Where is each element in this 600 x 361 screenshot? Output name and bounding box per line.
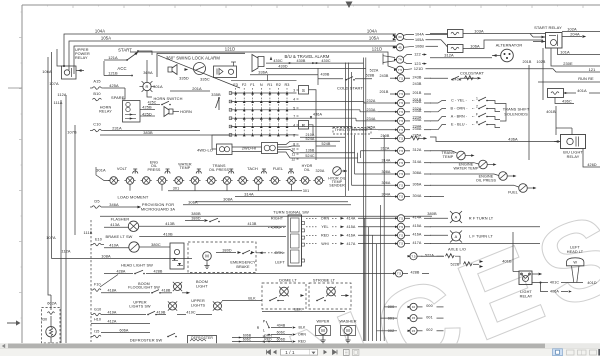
connector circle 45 at y47.3 [394, 46, 397, 48]
svg-text:404B: 404B [277, 323, 286, 327]
svg-text:522A: 522A [425, 253, 434, 257]
start relay feed arrows [541, 36, 545, 39]
alarm box 360 swing lock [157, 53, 245, 77]
wire 104A to fuse [430, 33, 448, 35]
lf turn light [430, 234, 448, 236]
wire 2wd to pins [278, 141, 301, 144]
svg-text:F1: F1 [250, 83, 255, 87]
feeder arrows into top circles [393, 34, 396, 36]
wire gauge feed vertical [96, 167, 110, 181]
wire 107A left vertical [51, 52, 53, 259]
svg-text:N: N [263, 340, 266, 344]
svg-text:383B: 383B [143, 130, 153, 135]
connector circle 7.5 at y69.8 [394, 69, 397, 71]
wire 108A [52, 258, 193, 260]
svg-text:FLASHER: FLASHER [111, 217, 130, 222]
svg-text:002: 002 [426, 328, 432, 332]
svg-text:RELAY: RELAY [99, 110, 112, 114]
svg-text:522A: 522A [370, 68, 379, 72]
svg-text:R3: R3 [284, 83, 289, 87]
svg-text:E10: E10 [95, 237, 102, 241]
svg-text:201B: 201B [522, 60, 531, 64]
svg-text:105A: 105A [369, 36, 379, 41]
svg-text:7.5: 7.5 [397, 272, 402, 276]
svg-text:522B: 522B [450, 263, 459, 267]
strobe lamp [327, 287, 336, 296]
wire 121D out of circle [403, 69, 412, 70]
connector circle 000 at y306.9 [408, 306, 411, 308]
defroster box [188, 336, 217, 345]
svg-text:WATER TEMP: WATER TEMP [453, 166, 479, 170]
wire 112A vertical [65, 95, 67, 343]
svg-text:7.5: 7.5 [399, 195, 404, 199]
svg-text:428B: 428B [153, 269, 162, 273]
wire 404B blk [271, 327, 292, 329]
svg-text:413B: 413B [247, 222, 256, 226]
svg-text:7.5: 7.5 [399, 172, 404, 176]
svg-text:606D: 606D [277, 337, 286, 341]
svg-text:000: 000 [426, 304, 432, 308]
svg-text:7.5: 7.5 [399, 183, 404, 187]
wire 412A [91, 323, 150, 325]
svg-text:430D: 430D [278, 64, 287, 68]
svg-text:413A: 413A [110, 222, 120, 227]
watermark outline letters [274, 185, 600, 361]
svg-text:001: 001 [426, 315, 432, 319]
diagonal wire from alarm [158, 55, 240, 88]
svg-text:111B: 111B [84, 230, 93, 235]
svg-text:415A: 415A [412, 224, 421, 228]
svg-text:430C: 430C [321, 59, 330, 63]
wire bundle middle verticals [364, 218, 366, 341]
wire 413A [104, 226, 128, 228]
svg-text:FUEL: FUEL [508, 190, 518, 194]
nav last page button [333, 350, 338, 355]
strobe switch [316, 300, 318, 302]
svg-text:R1: R1 [267, 83, 272, 87]
upper light lamp 1 [169, 302, 177, 310]
svg-text:START: START [118, 48, 132, 53]
wires out of circle 45 [403, 46, 414, 47]
svg-text:L F TURN LT: L F TURN LT [469, 234, 493, 239]
svg-text:308A: 308A [381, 170, 390, 174]
wire ignition to horn area [147, 91, 152, 97]
nav prev page button [273, 350, 277, 355]
svg-text:104A: 104A [95, 29, 105, 34]
wire 201A [170, 90, 210, 92]
emergency brake motor [203, 252, 212, 261]
wire 380C [139, 246, 170, 248]
wire 436A right [430, 137, 560, 142]
switch 335B [218, 98, 220, 110]
svg-text:SPARE: SPARE [111, 95, 125, 100]
R solenoid box [299, 121, 309, 130]
svg-text:201B: 201B [412, 91, 421, 95]
svg-text:106A: 106A [470, 43, 480, 48]
svg-text:RUN RE: RUN RE [578, 76, 594, 81]
svg-text:BLK: BLK [248, 296, 256, 300]
left ruler position marker arrow [7, 322, 17, 324]
svg-text:OIL: OIL [304, 168, 310, 172]
svg-text:401B: 401B [546, 109, 556, 114]
wire 106A to relay [57, 49, 62, 66]
svg-text:105A: 105A [101, 36, 111, 41]
svg-text:RELAY: RELAY [520, 294, 533, 298]
page icon 1 [344, 349, 350, 355]
svg-text:312A: 312A [444, 53, 454, 58]
svg-text:S: S [302, 88, 305, 93]
svg-text:TACH: TACH [247, 166, 258, 171]
svg-text:RELAY: RELAY [567, 155, 580, 159]
wire grid to 4wd [212, 135, 231, 149]
wire 413B [139, 225, 286, 227]
svg-text:5: 5 [293, 106, 295, 110]
svg-text:430B: 430B [296, 59, 305, 63]
wire 204A [562, 36, 582, 38]
wire 426D from relay [583, 149, 600, 168]
svg-text:416A: 416A [346, 234, 355, 238]
view mode button selected [553, 349, 563, 356]
page number box [281, 349, 318, 355]
svg-text:P: P [263, 320, 266, 324]
svg-text:235A: 235A [412, 134, 421, 138]
svg-text:335D: 335D [179, 76, 189, 81]
svg-text:419C: 419C [186, 310, 195, 314]
S solenoid box [299, 86, 309, 95]
svg-text:WHI: WHI [321, 242, 328, 246]
connector circle 001 at y318.1 [408, 317, 411, 319]
wire 415A continues [430, 226, 540, 228]
svg-text:OIL PRESS: OIL PRESS [209, 168, 230, 172]
svg-text:419A: 419A [107, 310, 116, 314]
svg-text:306A: 306A [412, 183, 421, 187]
svg-text:105A: 105A [415, 38, 424, 42]
svg-text:F3: F3 [233, 83, 238, 87]
svg-text:417A: 417A [412, 241, 421, 245]
svg-text:414A: 414A [412, 216, 421, 220]
wire bus 121D [130, 52, 396, 69]
wire bus 105A [69, 41, 396, 70]
svg-text:15: 15 [412, 316, 416, 320]
svg-text:428B: 428B [410, 271, 419, 275]
svg-text:2WD-HI: 2WD-HI [242, 146, 256, 151]
svg-text:H: H [263, 334, 266, 338]
connector circle 304A at y196.6 [395, 195, 398, 197]
svg-text:7A: 7A [398, 58, 402, 62]
svg-text:101A: 101A [560, 49, 570, 54]
wire 410B [139, 236, 286, 238]
wire 102A [562, 31, 600, 33]
svg-text:7.5: 7.5 [399, 161, 404, 165]
svg-text:WASHER: WASHER [339, 320, 356, 324]
svg-text:107A: 107A [46, 235, 56, 240]
svg-text:WIPER: WIPER [317, 320, 330, 324]
svg-text:380C: 380C [151, 242, 161, 247]
connector circle 60 at y37.0 [394, 36, 397, 38]
svg-text:301: 301 [173, 187, 179, 191]
svg-text:301A: 301A [96, 168, 106, 173]
svg-text:R: R [146, 84, 149, 89]
horn speaker [164, 107, 173, 117]
svg-text:AXLE L/O: AXLE L/O [448, 246, 466, 251]
wire blk strobe [262, 311, 345, 313]
scrollbar thumb [8, 344, 545, 349]
svg-text:A15: A15 [93, 78, 100, 83]
page icon 2 [353, 349, 359, 355]
svg-text:108A: 108A [101, 253, 111, 258]
svg-text:412A: 412A [107, 319, 116, 323]
svg-text:243B: 243B [379, 74, 388, 78]
svg-text:123: 123 [414, 62, 420, 66]
svg-text:235A: 235A [412, 127, 421, 131]
wire 314A lower [235, 196, 345, 198]
wire 304A right stub [430, 196, 444, 198]
svg-text:425A: 425A [109, 83, 119, 88]
svg-text:7.5: 7.5 [411, 254, 416, 258]
svg-text:7.5: 7.5 [399, 149, 404, 153]
svg-text:C10: C10 [93, 122, 101, 127]
svg-text:R F TURN LT: R F TURN LT [469, 216, 494, 221]
svg-text:425C: 425C [148, 100, 157, 104]
left ruler long tick [8, 87, 22, 89]
wire 524C [300, 157, 358, 159]
svg-text:B - ORN -: B - ORN - [450, 107, 468, 111]
svg-text:LIGHTS: LIGHTS [191, 303, 206, 307]
scrollbar left button [2, 344, 5, 348]
connector circle 7.5 at y138.4 [395, 137, 398, 139]
svg-text:304A: 304A [412, 194, 421, 198]
svg-text:R: R [302, 123, 306, 128]
svg-text:ORN: ORN [321, 217, 330, 221]
svg-text:107B: 107B [67, 130, 77, 135]
wire 602A feed [48, 251, 51, 295]
svg-text:234A: 234A [412, 118, 421, 122]
svg-text:606C: 606C [277, 330, 286, 334]
flasher module connector [170, 243, 184, 269]
svg-text:M: M [205, 254, 209, 259]
gauge drop wires [129, 184, 131, 190]
right edge mark [598, 349, 600, 356]
svg-text:201B: 201B [379, 90, 388, 94]
svg-text:243B: 243B [412, 75, 421, 79]
svg-text:436C: 436C [562, 98, 572, 103]
svg-text:H10: H10 [94, 317, 101, 321]
svg-text:ORN: ORN [298, 333, 306, 337]
svg-text:524B: 524B [321, 142, 330, 146]
svg-text:FLOODLIGHT SW: FLOODLIGHT SW [128, 286, 160, 290]
svg-text:380B: 380B [191, 211, 201, 216]
svg-text:LEFT: LEFT [275, 260, 285, 264]
dome switch [269, 300, 271, 302]
svg-text:LOAD MOMENT: LOAD MOMENT [118, 194, 149, 199]
svg-text:OIL PRESS: OIL PRESS [476, 178, 497, 182]
wire 383B [100, 134, 230, 136]
svg-text:1 / 1: 1 / 1 [285, 350, 295, 355]
wire 380D switch [185, 220, 204, 222]
svg-text:D5: D5 [94, 198, 99, 203]
svg-text:7.5: 7.5 [399, 128, 404, 132]
gauge alarm bells [133, 171, 138, 174]
svg-text:45: 45 [398, 45, 402, 49]
svg-text:121: 121 [589, 67, 596, 72]
svg-text:380B: 380B [427, 211, 437, 216]
svg-text:3: 3 [293, 88, 295, 92]
svg-text:121A: 121A [108, 55, 118, 60]
svg-text:1: 1 [476, 97, 478, 101]
svg-text:234A: 234A [366, 117, 375, 121]
bu light relay [561, 135, 586, 149]
svg-text:LIGHTS SW: LIGHTS SW [129, 305, 151, 309]
svg-text:A: A [455, 235, 458, 239]
svg-text:230E: 230E [563, 61, 573, 66]
wire 312A right [430, 57, 492, 59]
svg-text:7.5: 7.5 [399, 233, 404, 237]
wire 410A [104, 247, 129, 249]
wire 369A vertical [146, 60, 148, 82]
nav next page button [324, 350, 328, 355]
svg-text:LIGHT: LIGHT [196, 284, 208, 288]
wire 380D emergency [216, 252, 236, 254]
svg-text:4WD-LO: 4WD-LO [197, 148, 213, 153]
svg-text:HORN SWITCH: HORN SWITCH [154, 96, 183, 101]
turn rows yel [306, 226, 318, 228]
svg-text:306A: 306A [188, 200, 198, 205]
alarm speaker 335D [168, 65, 177, 75]
alarm power stub [233, 62, 235, 66]
svg-text:7.5: 7.5 [399, 101, 404, 105]
wire 301 gauge common [168, 190, 302, 192]
svg-text:301: 301 [303, 189, 309, 193]
svg-text:314A: 314A [244, 191, 254, 196]
svg-text:335C: 335C [200, 77, 210, 82]
svg-text:LIGHT: LIGHT [520, 290, 532, 294]
svg-text:301A: 301A [153, 84, 163, 89]
fuse column dashed [90, 220, 92, 342]
cold start switch row [318, 78, 343, 80]
wire 417A continues [430, 243, 540, 245]
horizontal scrollbar track [0, 343, 600, 348]
svg-text:406A: 406A [550, 290, 559, 294]
svg-text:401A: 401A [577, 88, 587, 93]
svg-text:606A: 606A [119, 328, 128, 332]
svg-text:233A: 233A [412, 109, 421, 113]
wire 606C orn [271, 334, 292, 336]
svg-text:314A: 314A [381, 159, 390, 163]
svg-text:STROBE LT: STROBE LT [313, 277, 336, 282]
connector circle 7A at y59.6 [394, 58, 397, 60]
wire 428B start [146, 273, 396, 275]
wire 436C [555, 98, 574, 104]
svg-text:BLK: BLK [299, 326, 306, 330]
svg-text:TEMP: TEMP [443, 155, 454, 159]
svg-text:A: A [455, 216, 458, 220]
wire relay output 401C [540, 282, 542, 284]
svg-text:606C: 606C [243, 338, 252, 342]
connector circle 235A at y129.7 [395, 129, 398, 131]
svg-text:B/U LIGHT: B/U LIGHT [563, 150, 583, 154]
svg-text:121D: 121D [372, 47, 382, 52]
svg-text:7.5: 7.5 [399, 225, 404, 229]
wire 606B grn [232, 337, 258, 339]
alarm relay box [214, 66, 237, 78]
wire relay top [571, 128, 573, 135]
wire 230E [551, 48, 600, 66]
svg-text:380D: 380D [222, 248, 231, 252]
svg-text:524A: 524A [305, 137, 314, 141]
svg-text:M: M [321, 328, 325, 333]
svg-text:TEMP: TEMP [180, 166, 191, 170]
wire 306A lower [183, 204, 351, 206]
connector circle 428B at y273.4 [393, 272, 396, 274]
top ruler ticks [22, 5, 583, 8]
svg-text:106A: 106A [42, 69, 52, 74]
hydr oil temp sender [333, 167, 342, 176]
wire 430C 430B row [266, 62, 364, 64]
wire rows to connector circles [346, 196, 397, 198]
svg-text:243B: 243B [412, 82, 421, 86]
svg-text:HORN: HORN [180, 109, 192, 114]
svg-text:335B: 335B [211, 92, 221, 97]
svg-text:10: 10 [412, 305, 416, 309]
svg-text:304A: 304A [381, 192, 390, 196]
svg-text:428A: 428A [116, 269, 125, 273]
svg-text:380D: 380D [191, 216, 200, 220]
svg-text:COLD START: COLD START [337, 85, 363, 90]
svg-text:FUEL: FUEL [273, 166, 284, 171]
svg-text:I15: I15 [94, 330, 99, 334]
wire 107B vertical [74, 125, 76, 235]
wire bundle upper verticals [363, 58, 365, 342]
svg-text:121D: 121D [225, 47, 235, 52]
svg-text:COLDSTART: COLDSTART [460, 71, 485, 76]
connector circle 243B at y78.2 [395, 77, 398, 79]
svg-text:104A: 104A [367, 29, 377, 34]
wire 106A left vertical [47, 57, 49, 251]
svg-text:TURN SIGNAL SW: TURN SIGNAL SW [273, 209, 309, 214]
arrow brn row [259, 251, 263, 254]
svg-text:320A: 320A [315, 169, 324, 173]
svg-text:7.5: 7.5 [399, 76, 404, 80]
grid common top line [231, 80, 297, 82]
svg-text:VOLT: VOLT [117, 166, 128, 171]
svg-text:A - BRN -: A - BRN - [451, 115, 468, 119]
svg-text:R2: R2 [276, 83, 281, 87]
svg-text:7: 7 [293, 114, 295, 118]
svg-text:F: F [476, 113, 478, 117]
connector circle 232A at y103.0 [395, 102, 398, 104]
svg-text:2: 2 [476, 105, 478, 109]
connector circle 417A at y243.6 [395, 242, 398, 244]
connector circle 201B at y94.0 [395, 93, 398, 95]
svg-text:HEAD LT: HEAD LT [567, 250, 584, 254]
connector circle 416A at y235.3 [395, 234, 398, 236]
resistor after 210B circle [404, 137, 410, 139]
wire blk dome [222, 300, 262, 302]
rf turn light [430, 217, 448, 219]
svg-text:102B: 102B [536, 60, 545, 64]
wires out of circle 60 [403, 34, 414, 35]
connector circle 314A at y162.7 [395, 162, 398, 164]
instrument panel gauges [110, 177, 118, 185]
svg-text:RIGHT: RIGHT [271, 217, 284, 221]
svg-text:HEAD LIGHT SW: HEAD LIGHT SW [121, 263, 153, 268]
wire between connectors [232, 146, 262, 148]
svg-text:R: R [257, 326, 260, 330]
wire 336A [250, 74, 318, 76]
wire 430B vertical [317, 68, 319, 85]
view mode button 2 [567, 350, 575, 355]
fuse 106A right [448, 45, 464, 53]
